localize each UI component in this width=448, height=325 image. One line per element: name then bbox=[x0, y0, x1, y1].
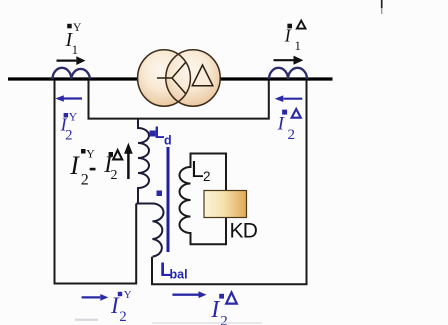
delta symbol bbox=[192, 65, 213, 86]
svg-text:2: 2 bbox=[203, 169, 211, 184]
faint crop artifacts bottom bbox=[75, 319, 98, 321]
svg-text:2: 2 bbox=[119, 309, 126, 325]
wire: outer right loop from Lbal bottom bbox=[152, 80, 307, 284]
CT left bbox=[53, 68, 91, 79]
svg-text:1: 1 bbox=[295, 39, 301, 53]
wire: outer left loop with tap riser bbox=[55, 80, 137, 284]
svg-text:Y: Y bbox=[124, 289, 132, 301]
arrow bottom-right I2D (blue right arrow) bbox=[172, 294, 198, 296]
label I1-Y (top left) bbox=[65, 22, 82, 57]
label Ld (blue) bbox=[155, 124, 172, 148]
svg-text:1: 1 bbox=[72, 43, 78, 57]
inductor Ld (upper winding of balancing autotransformer) bbox=[138, 120, 149, 204]
svg-text:Y: Y bbox=[69, 111, 78, 123]
label I2-Y (below left CT) bbox=[60, 111, 78, 143]
svg-text:2: 2 bbox=[65, 128, 72, 144]
arrow I2-Y (blue left arrow) bbox=[63, 97, 82, 99]
svg-text:Y: Y bbox=[73, 22, 82, 34]
polarity dot Ld bbox=[150, 131, 156, 137]
svg-text:d: d bbox=[164, 134, 172, 148]
label differential current I2Y - I2D (black) bbox=[69, 147, 117, 188]
wire: tap jog to Lbal bbox=[136, 203, 152, 205]
label Lbal (blue) bbox=[160, 260, 188, 282]
polarity dot Lbal bbox=[157, 191, 163, 197]
arrow I1 left (black right arrow) bbox=[57, 59, 77, 61]
svg-text:Y: Y bbox=[86, 147, 95, 160]
inductor Lbal (lower winding) bbox=[153, 204, 164, 257]
svg-text:2: 2 bbox=[288, 127, 296, 143]
arrow I2-delta (blue left arrow) bbox=[284, 98, 303, 100]
bus bar (right segment) bbox=[220, 77, 333, 80]
crop artifact tick top right bbox=[381, 0, 383, 8]
svg-text:KD: KD bbox=[230, 220, 258, 243]
wye symbol bbox=[157, 63, 186, 94]
label I1-delta (top right) bbox=[284, 24, 301, 53]
CT right bbox=[269, 68, 307, 79]
svg-text:I: I bbox=[69, 151, 80, 180]
wire: L2 relay loop bbox=[180, 154, 227, 245]
svg-text:I: I bbox=[277, 114, 286, 135]
bus bar (left segment) bbox=[8, 77, 138, 80]
svg-text:I: I bbox=[210, 297, 220, 323]
arrow bottom-left I2Y (blue right arrow) bbox=[82, 296, 101, 298]
svg-text:2: 2 bbox=[81, 172, 89, 189]
svg-text:bal: bal bbox=[170, 268, 188, 282]
arrow up (differential current direction) bbox=[127, 153, 130, 179]
label L2 (black) bbox=[191, 156, 211, 184]
svg-text:I: I bbox=[284, 26, 292, 46]
svg-text:2: 2 bbox=[111, 168, 118, 183]
transformer T1 circles bbox=[138, 50, 191, 106]
core bar (blue) bbox=[167, 147, 170, 252]
label bottom-right I2-delta bbox=[210, 294, 228, 325]
label I2-delta (below right CT) bbox=[277, 110, 295, 143]
label bottom-left I2-Y bbox=[110, 289, 132, 325]
wire: inner rectangle below bus bbox=[89, 80, 269, 119]
arrow I1 right (black right arrow) bbox=[274, 59, 294, 61]
relay KD box bbox=[204, 191, 247, 218]
